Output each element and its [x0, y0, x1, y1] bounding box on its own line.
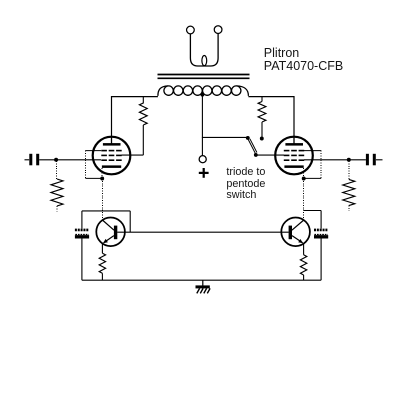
node: right cathode junction	[302, 177, 306, 181]
wire: left input lead	[25, 159, 30, 161]
label: Plitron PAT4070-CFB	[264, 47, 343, 73]
node: right input junction	[347, 158, 351, 162]
capacitor C1 (left input coupling)	[29, 154, 39, 166]
wire: centre tap to switch	[202, 136, 247, 138]
transformer T1 core	[158, 74, 250, 76]
transistor Q1 (left)	[96, 218, 125, 247]
wire: left plate rail	[112, 96, 158, 98]
resistor R6 (Q2 emitter)	[300, 255, 306, 275]
wire: switch pole to right g2	[256, 154, 284, 156]
transformer T1 secondary terminal right	[214, 26, 222, 34]
wire: Q1 emitter lead	[101, 244, 103, 254]
wire: right cathode to Q2 collector	[303, 179, 305, 219]
resistor R4 (right grid leak)	[343, 179, 355, 205]
wire: centre tap down	[201, 96, 203, 139]
wire: right plate rail	[248, 96, 294, 98]
wire: right cathode lead	[303, 168, 305, 179]
node: left cathode junction	[100, 177, 104, 181]
wire: junction to R4	[348, 161, 350, 179]
label: +	[199, 172, 209, 174]
resistor R5 (Q1 emitter)	[99, 253, 105, 273]
wire: R4 bottom stub	[348, 206, 350, 211]
capacitor C2 (right input coupling)	[366, 154, 376, 166]
wire: left cathode to Q1 collector	[101, 179, 103, 221]
resistor R1 (left screen grid)	[139, 96, 147, 125]
wire: junction to R3	[56, 161, 58, 179]
wire: left suppressor grid tie	[85, 151, 102, 179]
wire: right suppressor grid tie	[304, 151, 322, 179]
transistor Q2 (right)	[281, 218, 310, 247]
capacitor C4 (right feedback)	[314, 230, 328, 239]
wire: C1 to left grid	[39, 159, 101, 161]
wire: down to B+ terminal	[201, 137, 203, 155]
wire: R5 to ground rail	[101, 273, 103, 280]
resistor R2 (right screen grid)	[258, 96, 266, 137]
wire: left box right vertical	[129, 211, 131, 232]
wire: left plate lead vertical	[111, 96, 113, 137]
wire: ground rail	[82, 279, 321, 281]
wire: right cap branch upper	[320, 211, 322, 229]
wire: left cap branch lower	[81, 238, 83, 280]
resistor R3 (left grid leak)	[51, 179, 63, 206]
switch S1 blade	[248, 139, 257, 154]
node: switch pole	[254, 153, 258, 157]
wire: R3 bottom stub	[56, 206, 58, 211]
ground	[196, 280, 211, 293]
node: switch throw (B+)	[246, 136, 250, 140]
wire: Q2 emitter lead	[303, 244, 305, 255]
capacitor C3 (left feedback)	[75, 230, 89, 239]
wire: R1 to left g2	[122, 125, 144, 155]
vacuum tube V1 (left pentode)	[93, 136, 131, 174]
node: primary center tap junction	[201, 93, 205, 97]
wire: left cathode lead	[101, 168, 103, 179]
transformer T1 primary winding	[158, 86, 249, 96]
wire: C2 to right grid	[304, 159, 366, 161]
wire: right plate lead vertical	[293, 96, 295, 137]
node: switch throw (triode, R2 bottom)	[260, 137, 264, 141]
wire: left box top	[82, 210, 130, 212]
wire: right box top	[304, 210, 322, 212]
wire: left cap branch upper	[81, 211, 83, 229]
node: left input junction	[54, 158, 58, 162]
wire: right cap branch lower	[320, 238, 322, 280]
terminal: B+ supply	[199, 156, 206, 163]
label: triode to pentode switch	[226, 167, 265, 201]
wire: R6 to ground rail	[303, 275, 305, 280]
transformer T1 secondary terminal left	[187, 26, 195, 34]
wire: right input lead	[376, 159, 383, 161]
vacuum tube V2 (right pentode)	[275, 136, 313, 174]
wire: base coupling line	[117, 231, 289, 233]
transformer T1 secondary winding	[190, 33, 218, 66]
